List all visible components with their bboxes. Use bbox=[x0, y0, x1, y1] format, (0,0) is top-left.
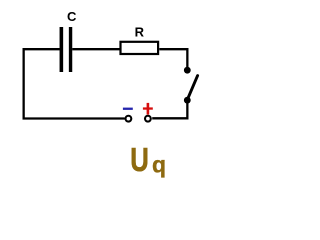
source plus terminal (open circle) bbox=[145, 116, 151, 122]
switch S lower contact dot bbox=[184, 97, 191, 104]
capacitor C bbox=[61, 27, 70, 72]
svg-text:R: R bbox=[135, 25, 145, 40]
wire right vertical upper bbox=[186, 48, 188, 70]
svg-text:C: C bbox=[67, 9, 77, 24]
wire bottom-right horizontal bbox=[152, 117, 188, 119]
wire resistor to top-right corner bbox=[159, 48, 188, 50]
svg-text:q: q bbox=[152, 152, 166, 178]
label Uq source voltage bbox=[130, 142, 166, 179]
switch S blade bbox=[187, 76, 197, 100]
resistor R1 box bbox=[121, 42, 159, 54]
wire capacitor to resistor bbox=[72, 48, 119, 50]
svg-text:U: U bbox=[130, 142, 149, 179]
wire left vertical bbox=[22, 48, 24, 119]
label R bbox=[135, 25, 145, 40]
wire bottom-left horizontal bbox=[23, 117, 125, 119]
label C bbox=[67, 9, 77, 24]
switch S upper contact dot bbox=[184, 67, 191, 74]
wire top-left horizontal bbox=[23, 48, 60, 50]
wire right vertical lower bbox=[186, 100, 188, 119]
source minus terminal (open circle) bbox=[125, 116, 131, 122]
minus sign bbox=[123, 108, 133, 110]
plus sign bbox=[143, 103, 153, 115]
